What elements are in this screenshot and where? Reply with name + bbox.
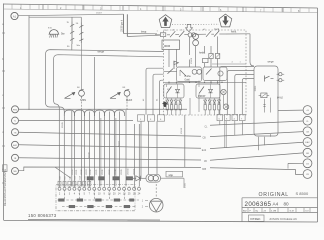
sheet frame top reference ticks	[43, 5, 283, 13]
title sheet code S 8500	[296, 191, 309, 196]
valve contact J	[265, 76, 274, 82]
cable pair vertical right	[126, 14, 128, 36]
svg-text:S 8500: S 8500	[296, 191, 309, 196]
valve coupler pair	[277, 73, 285, 82]
svg-text:SR: SR	[306, 153, 309, 155]
component label dark	[199, 51, 206, 55]
level switch B0 MIN	[65, 87, 86, 102]
stepped wire labels	[143, 98, 158, 101]
contact row labels	[157, 29, 184, 32]
stepped wire 3	[235, 75, 254, 115]
pin labels left group	[140, 119, 162, 121]
cable pair vertical left	[123, 14, 125, 33]
bus wire pair b	[115, 118, 117, 186]
cable label 15008 ger.k	[120, 19, 123, 32]
rotated label under unit	[181, 127, 183, 134]
svg-text:150310: 150310	[127, 167, 129, 175]
title block top line	[242, 197, 318, 199]
svg-text:MAX: MAX	[126, 98, 133, 102]
svg-text:15039: 15039	[121, 169, 123, 175]
title stamp ORIGINAL	[259, 192, 289, 198]
wire 1B row	[19, 158, 201, 160]
wire top of switches	[29, 17, 81, 22]
valve plug box	[259, 93, 270, 98]
svg-text:15031: 15031	[76, 169, 78, 175]
left connector circle FMZ	[12, 106, 19, 113]
lamp E15 symbol	[49, 30, 60, 38]
contact slash c	[196, 31, 214, 37]
bus wire pair a	[100, 118, 102, 186]
wire MB row	[19, 167, 201, 178]
title drawing number 2006365	[245, 201, 272, 208]
svg-text:A4: A4	[273, 202, 279, 207]
pin labels right group	[219, 118, 244, 120]
wire 1B circle link	[288, 163, 303, 168]
contact row right labels	[203, 28, 220, 31]
title table cell texts	[243, 210, 309, 212]
pin descent v157	[156, 121, 158, 174]
sheet frame bottom border	[4, 221, 318, 223]
svg-text:15030: 15030	[72, 169, 74, 175]
svg-text:150 8066373: 150 8066373	[28, 213, 57, 218]
splice dashed row 2	[62, 206, 136, 208]
indicator double circle	[193, 34, 199, 46]
wire tick line right	[212, 61, 246, 64]
splice blobs row 2	[69, 205, 130, 208]
bus wire v104	[104, 112, 106, 187]
bus wire v90	[89, 112, 91, 187]
connector blob X4	[126, 177, 132, 180]
connector blob X2	[99, 177, 105, 180]
right connector circle +B	[303, 106, 312, 115]
title table cell dividers	[248, 208, 310, 213]
bus wire v85	[84, 112, 86, 187]
sheet frame left border	[3, 4, 5, 221]
unit drop long	[184, 115, 186, 167]
svg-text:b10: b10	[59, 176, 61, 179]
diode-resistor column L1	[166, 99, 169, 116]
bus arch 2	[75, 110, 85, 116]
row A to rail stubs	[169, 81, 218, 85]
svg-text:b12: b12	[69, 176, 71, 179]
valve lower drop c	[270, 134, 272, 137]
earth triangle symbol	[149, 198, 163, 212]
valve unit rounded box	[254, 66, 278, 136]
contact into row A	[164, 69, 178, 74]
sheet frame column numbers	[20, 7, 300, 13]
wire right edge label	[231, 30, 237, 33]
wire drops below squares	[190, 59, 218, 68]
right connector circle CL	[303, 116, 312, 125]
module K2 diode	[176, 85, 180, 99]
module A1 circle pair	[192, 69, 202, 74]
small arrow marker	[162, 102, 167, 107]
small component box	[203, 59, 209, 63]
rotated bus label c	[119, 140, 121, 147]
wire label blob	[141, 31, 147, 34]
contact slash b	[179, 31, 188, 37]
svg-text:b15: b15	[84, 176, 86, 179]
svg-text:ORIGINAL: ORIGINAL	[259, 192, 289, 198]
bus arch 4	[95, 110, 105, 116]
connector pin boxes right group	[217, 114, 245, 120]
valve lower drop b	[264, 137, 266, 145]
title name box VITZEK	[249, 215, 265, 221]
svg-text:hebtl.: hebtl.	[231, 30, 237, 33]
terminal drop stubs	[65, 190, 125, 200]
svg-text:15038: 15038	[115, 169, 117, 175]
diode-resistor column R3	[213, 99, 216, 116]
title format A4	[273, 202, 279, 207]
lamp circle lower	[223, 104, 229, 110]
sheet frame top inner line	[3, 9, 318, 13]
terminal point circles	[58, 187, 141, 190]
right pin drop b	[225, 121, 226, 148]
wire to right edge	[226, 33, 250, 35]
right connector circle CB	[303, 127, 312, 136]
bus arch 3	[85, 110, 95, 116]
sheet frame top outer line	[3, 4, 318, 8]
dotted link between pentagons	[172, 23, 219, 25]
svg-text:2006365: 2006365	[245, 201, 272, 208]
left connector circle MB	[12, 168, 19, 175]
bus wire v115	[114, 112, 116, 187]
svg-text:wege: wege	[268, 61, 275, 64]
svg-text:bergr.: bergr.	[141, 31, 147, 34]
connector circle A1	[11, 12, 18, 19]
svg-text:b4 b2: b4 b2	[277, 97, 283, 99]
wire MAX drop dashed	[126, 102, 128, 111]
rotated bus label b	[89, 151, 91, 158]
title block left border	[241, 198, 243, 222]
svg-text:15008 ger.k: 15008 ger.k	[120, 19, 123, 32]
valve arrow marks	[263, 105, 265, 107]
svg-text:berg: berg	[215, 28, 220, 31]
module K2 label	[167, 89, 170, 91]
lamp circle small	[221, 89, 226, 94]
terminal numbers	[59, 193, 141, 196]
direction arrow pentagon down	[219, 14, 232, 27]
wire left vertical trunk x29	[28, 16, 30, 111]
contact box small	[160, 33, 166, 37]
left connector circle EA2	[12, 141, 19, 148]
bus wire v127b	[125, 110, 127, 186]
contact slash d	[214, 31, 226, 37]
svg-text:80: 80	[284, 202, 290, 207]
bus wire v109	[109, 112, 111, 187]
module A1 contact	[180, 70, 186, 76]
rotated wire label 15009	[191, 57, 193, 64]
svg-text:JOSON KOGELE A6: JOSON KOGELE A6	[269, 217, 297, 221]
svg-text:15037: 15037	[109, 169, 111, 175]
bottom left part number 150 8066373	[28, 213, 57, 218]
svg-text:DO: DO	[306, 210, 310, 212]
relay K1 coil box	[162, 40, 180, 50]
relay coil pair circles	[188, 33, 196, 37]
svg-text:0006: 0006	[164, 44, 171, 48]
wire EA2 row left	[19, 145, 201, 149]
diode-resistor column L4	[179, 99, 182, 116]
wire FMZ row	[19, 108, 187, 110]
wire TL row	[19, 120, 133, 122]
svg-text:b13: b13	[74, 176, 76, 179]
label wege	[98, 50, 105, 54]
bus arch 5	[105, 110, 115, 116]
svg-text:150311: 150311	[133, 168, 135, 175]
lamp value 5w	[61, 32, 66, 36]
wire switch b to MIN	[80, 43, 82, 90]
bus arch 1	[64, 110, 74, 116]
left connector circle 1B	[12, 154, 19, 161]
right connector circle X8	[303, 170, 312, 179]
right connector circle EA2	[303, 138, 312, 147]
module A1 box	[177, 67, 202, 82]
left connector circle TL	[12, 117, 19, 124]
module PROP label	[198, 94, 206, 98]
contact slash a	[167, 31, 179, 37]
left connector circle TB	[12, 129, 19, 136]
svg-text:b11: b11	[64, 176, 66, 179]
right pin drop a	[219, 121, 221, 125]
hollow arrow symbol	[186, 24, 193, 31]
valve rotated label	[255, 85, 257, 92]
bus wire v139	[138, 124, 140, 186]
svg-text:150a: 150a	[185, 182, 187, 188]
terminal stub wires	[60, 186, 140, 187]
right connector circle SR	[303, 148, 312, 157]
svg-text:15010: 15010	[181, 127, 183, 134]
module A2 circle	[218, 71, 223, 76]
terminal micro labels	[72, 167, 136, 175]
stepped wire left 2	[153, 74, 164, 115]
terminal housing boxes	[58, 181, 91, 186]
small squares with pins	[209, 54, 220, 59]
title index 80	[284, 202, 290, 207]
module A2 contact	[206, 69, 212, 75]
wire lineB with corner	[54, 55, 164, 187]
svg-text:EA2: EA2	[202, 149, 207, 152]
wire drops from coil area	[169, 36, 218, 67]
label Kurbe	[185, 75, 192, 78]
svg-text:b14: b14	[79, 176, 81, 179]
wire MIN drop dashed	[81, 102, 83, 111]
terminal enclosure dash-dot box	[56, 185, 135, 211]
wire +B row	[278, 109, 303, 111]
module K2 contact	[167, 85, 172, 99]
svg-text:Gab.l: Gab.l	[185, 78, 191, 81]
svg-text:15011: 15011	[255, 85, 257, 92]
svg-text:15032: 15032	[81, 169, 83, 175]
svg-text:A1: A1	[13, 14, 17, 18]
wire SR row right	[204, 153, 303, 163]
svg-text:wije: wije	[169, 173, 174, 177]
horn drop	[183, 178, 185, 188]
bus wire v71	[71, 111, 73, 186]
wire X8 row	[202, 168, 303, 175]
connector blob X1	[87, 177, 93, 180]
svg-text:X88: X88	[202, 169, 207, 171]
svg-text:CB: CB	[203, 138, 207, 140]
diode V7	[128, 176, 146, 181]
direction arrow pentagon up	[159, 15, 172, 28]
contact row left pin	[155, 34, 160, 36]
lamp tag	[48, 28, 53, 30]
diode-resistor column L2	[170, 99, 173, 116]
bus wire v76	[74, 112, 76, 187]
wire right drop x250	[250, 34, 254, 66]
stepped wire 1	[220, 67, 254, 115]
module K2 box	[164, 84, 184, 98]
splice blobs row 1	[59, 199, 134, 202]
valve drop wires	[265, 98, 271, 113]
switch a stub	[71, 44, 73, 50]
title text JOSON KOGELE	[269, 217, 297, 221]
svg-text:CB: CB	[306, 131, 310, 133]
horn label box	[166, 171, 183, 177]
horn wire right	[161, 177, 185, 179]
diode-resistor column R4	[218, 99, 221, 116]
bus rail y82	[164, 81, 247, 83]
level switch B8 MAX	[110, 87, 132, 102]
sheet frame row letters	[2, 23, 4, 171]
module A2 box	[203, 67, 227, 81]
pin descent v148	[148, 121, 150, 174]
relay K1 coil text	[164, 44, 171, 48]
splice side labels 1 2	[142, 200, 148, 208]
valve lower drop a	[258, 137, 260, 151]
stepped wire left 3	[160, 80, 164, 115]
svg-text:15015: 15015	[62, 121, 64, 128]
wire CL row	[205, 121, 304, 128]
switch S1 contact column a	[67, 22, 75, 49]
svg-text:FMZ: FMZ	[13, 109, 18, 111]
stepped wire left 1	[146, 68, 164, 115]
svg-text:PROP: PROP	[198, 94, 206, 98]
rotated bus label a	[62, 121, 64, 128]
connector pin boxes left group	[138, 115, 165, 121]
module K3 contact	[199, 85, 204, 99]
title block table bottom line	[242, 211, 318, 213]
left frame label box	[3, 165, 8, 172]
module K3 diode	[209, 85, 213, 99]
connector blob X3	[113, 177, 119, 180]
bus wire v102	[99, 112, 101, 187]
sheet frame left ticks	[2, 33, 5, 183]
pin descent v141	[140, 121, 142, 178]
svg-text:15034: 15034	[90, 169, 92, 175]
right connector circle 1B	[303, 159, 312, 168]
label Gabl	[185, 78, 191, 81]
terminal micro labels left	[59, 176, 86, 179]
module drop wires	[190, 95, 224, 115]
diode-resistor column R1	[204, 99, 207, 116]
stepped wire 2	[227, 71, 254, 115]
svg-text:15036: 15036	[102, 169, 104, 175]
svg-text:15033: 15033	[86, 169, 88, 175]
right pin drop d	[241, 121, 243, 135]
wire y36.5 into contact row	[127, 35, 160, 36]
sheet frame right border	[317, 8, 319, 222]
wire TB row	[19, 132, 201, 136]
right pin drop c	[234, 121, 236, 136]
svg-text:MIN: MIN	[80, 98, 86, 102]
switch S1 contact column b	[76, 23, 84, 48]
bus arch 6	[115, 110, 125, 116]
svg-text:15007: 15007	[96, 12, 103, 14]
flag symbol	[174, 61, 179, 69]
controller dashed enclosure	[164, 30, 247, 115]
wire A1 to corner	[18, 14, 123, 16]
wire CB row right	[203, 132, 304, 140]
bus wire v96	[94, 57, 96, 186]
svg-text:wege: wege	[98, 50, 105, 54]
module K3 box	[196, 84, 220, 98]
svg-text:VITZEK: VITZEK	[250, 217, 261, 221]
bus wire v121	[119, 112, 121, 187]
horn double circle	[146, 174, 161, 182]
stepped wire 4	[242, 79, 254, 115]
svg-text:15009: 15009	[191, 57, 193, 64]
wire y33.5 to label	[124, 33, 158, 35]
wire A1 label	[96, 12, 103, 14]
valve text pair	[277, 97, 283, 99]
diode-resistor column R2	[208, 99, 211, 116]
left margin rotated drawing id	[3, 169, 7, 206]
bus wire v81	[81, 110, 83, 186]
diode-resistor column L3	[174, 99, 177, 116]
svg-text:1B: 1B	[204, 161, 207, 163]
bottom left underline	[28, 219, 160, 222]
sheet frame top minor ticks	[12, 4, 309, 12]
bus junction dots	[168, 82, 222, 83]
wire EA2 row right	[202, 142, 303, 152]
splice dashed row 1	[58, 199, 140, 201]
wire lineA with corner	[46, 50, 164, 187]
valve label wege	[268, 61, 275, 64]
earth triangle stub	[155, 184, 157, 198]
title block mid line	[242, 207, 318, 209]
horn rotated label	[185, 182, 187, 188]
svg-text:15035: 15035	[96, 169, 98, 175]
svg-text:5.198: 5.198	[271, 210, 277, 212]
svg-text:DE.ACMOS.ACTSLIJAOSTENG: DE.ACMOS.ACTSLIJAOSTENG	[3, 169, 7, 206]
bus wire v133	[134, 124, 136, 186]
